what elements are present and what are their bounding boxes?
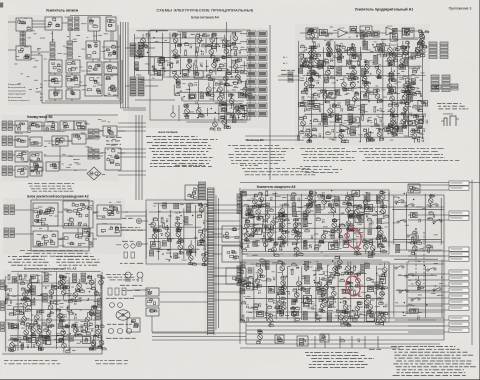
- wire: [31, 54, 42, 56]
- switch contact: [429, 204, 438, 208]
- IC U48: [418, 116, 423, 123]
- IC U53: [432, 85, 441, 89]
- text line: [175, 164, 205, 166]
- transistor VT148: [354, 242, 361, 256]
- resistor R141: [427, 247, 430, 253]
- resistor R124: [353, 265, 356, 271]
- transistor VT66: [307, 72, 315, 87]
- wire: [70, 15, 112, 17]
- connector X19: [323, 116, 328, 124]
- connector pair: [247, 71, 267, 77]
- transistor VT150: [380, 190, 385, 204]
- IC U13: [66, 75, 80, 87]
- transistor VT51: [387, 79, 395, 93]
- resistor R77: [13, 345, 16, 351]
- connector X24: [350, 127, 355, 135]
- IC U40: [348, 47, 356, 55]
- connector X10: [238, 93, 243, 98]
- transistor VT88: [34, 310, 44, 325]
- resistor R84: [197, 214, 201, 217]
- transistor VT102: [97, 336, 106, 350]
- wire: [13, 139, 15, 141]
- svg-text:Усилитель мощности: Усилитель мощности: [8, 100, 30, 102]
- capacitor C104: [346, 281, 349, 285]
- wire: [161, 33, 163, 80]
- svg-text:Блок питания А4: Блок питания А4: [191, 16, 219, 20]
- connector X18: [324, 77, 329, 82]
- resistor R116: [291, 269, 294, 275]
- transistor VT142: [331, 218, 337, 232]
- capacitor C52: [9, 288, 12, 292]
- IC U56: [15, 136, 28, 147]
- resistor R137: [411, 236, 414, 242]
- connector X105: [334, 241, 338, 246]
- capacitor C101: [319, 316, 322, 320]
- connector X14: [138, 43, 144, 56]
- capacitor C37: [354, 130, 357, 134]
- capacitor C116: [353, 312, 356, 316]
- text line: [95, 360, 128, 362]
- wire: [121, 229, 128, 231]
- connector X52: [8, 136, 13, 145]
- wire: [213, 81, 215, 101]
- text line: [31, 188, 72, 190]
- capacitor C93: [258, 290, 261, 294]
- capacitor C39: [384, 51, 387, 55]
- transistor VT69: [337, 46, 346, 60]
- capacitor C34: [417, 66, 420, 70]
- resistor R83: [162, 222, 165, 228]
- wire: [71, 99, 73, 101]
- wire: [15, 233, 33, 235]
- wire: [31, 276, 33, 348]
- resistor R38: [361, 115, 364, 121]
- text line: [56, 261, 99, 263]
- IC U117: [242, 206, 253, 218]
- IC U15: [104, 75, 118, 96]
- connector X58: [94, 129, 99, 139]
- text line: [397, 372, 466, 374]
- transistor VT140: [319, 230, 327, 244]
- wire: [96, 31, 98, 41]
- resistor R122: [329, 304, 333, 307]
- wire: [52, 31, 54, 42]
- capacitor C9: [181, 97, 184, 101]
- transistor VT141: [328, 203, 338, 217]
- transistor VT2: [173, 45, 180, 59]
- transistor VT131: [272, 241, 279, 256]
- connector X5: [67, 41, 73, 58]
- input jack: [136, 241, 141, 246]
- transistor VT18: [228, 93, 234, 108]
- capacitor C11: [195, 101, 198, 105]
- IC U119: [411, 213, 418, 218]
- IC U1: [16, 18, 32, 31]
- IC U12: [49, 75, 62, 87]
- wire: [179, 33, 181, 54]
- transistor VT72: [366, 128, 374, 142]
- capacitor C28: [364, 59, 367, 63]
- capacitor C99: [296, 265, 299, 269]
- transistor VT190: [336, 309, 348, 324]
- capacitor C53: [10, 300, 13, 304]
- wire: [205, 60, 207, 72]
- resistor R103: [360, 212, 364, 215]
- text line: [369, 348, 381, 350]
- wire: [306, 87, 419, 89]
- text line: [13, 258, 46, 260]
- value labels: [243, 262, 387, 318]
- transistor VT1: [172, 33, 182, 48]
- IC U102: [365, 204, 373, 211]
- transistor VT38: [350, 43, 358, 57]
- channel frame upper: [242, 190, 389, 254]
- transistor VT81: [307, 28, 314, 43]
- wire: [246, 317, 444, 319]
- IC U71: [33, 203, 58, 226]
- wire: [151, 316, 153, 332]
- transistor VT167: [278, 260, 285, 275]
- transistor VT183: [378, 286, 388, 301]
- capacitor C98: [287, 291, 290, 295]
- resistor R102: [304, 240, 307, 246]
- transistor VT164: [256, 263, 266, 278]
- transistor VT154: [263, 208, 273, 223]
- text line: [106, 297, 134, 299]
- capacitor C117: [381, 285, 384, 289]
- IC U29: [298, 102, 306, 106]
- wire: [13, 154, 15, 156]
- capacitor C4: [167, 62, 170, 66]
- connector X53: [2, 151, 7, 160]
- text line: [152, 145, 210, 147]
- wire: [334, 41, 336, 138]
- wire: [408, 319, 449, 321]
- connector X87: [186, 204, 191, 212]
- svg-text:Усилитель записи: Усилитель записи: [46, 9, 78, 13]
- IC U55: [30, 122, 42, 131]
- transistor VT101: [94, 324, 104, 338]
- resistor R92: [315, 244, 319, 247]
- transistor VT87: [23, 325, 31, 339]
- resistor R19: [300, 130, 304, 133]
- transistor VT105: [58, 275, 66, 290]
- wire: [86, 138, 88, 140]
- transistor VT176: [344, 261, 354, 275]
- output jack Гн8: [449, 270, 469, 274]
- connector X113: [292, 299, 296, 304]
- IC U39: [336, 115, 342, 122]
- connector X95: [316, 204, 321, 212]
- text line: [396, 360, 471, 362]
- transistor VT121: [198, 203, 207, 217]
- wire: [216, 37, 218, 52]
- connector X84: [162, 241, 166, 246]
- wire: [275, 264, 277, 320]
- output jack Гн1: [449, 181, 469, 185]
- wire: [315, 268, 317, 320]
- transistor VT71: [362, 71, 368, 85]
- wire: [242, 259, 382, 261]
- text line: [364, 154, 443, 156]
- transistor VT61: [415, 42, 425, 57]
- wire: [240, 65, 247, 67]
- transistor VT181: [367, 300, 374, 314]
- wire: [127, 22, 129, 108]
- transistor VT47: [377, 127, 384, 141]
- panel shading: [238, 260, 390, 323]
- red annotation ellipse: [344, 275, 361, 297]
- connector X35: [346, 100, 350, 105]
- resistor R70: [69, 311, 73, 314]
- transistor VT177: [343, 300, 349, 314]
- switch contact: [427, 268, 436, 272]
- resistor R15: [189, 83, 193, 86]
- wire: [240, 57, 247, 59]
- wire: [408, 291, 449, 293]
- IC U5: [16, 46, 31, 60]
- connector pair: [247, 47, 267, 53]
- transistor VT198: [335, 255, 342, 269]
- wire: [136, 56, 163, 58]
- wire: [408, 303, 449, 305]
- junctions: [181, 83, 233, 98]
- wire: [246, 263, 444, 265]
- wire: [244, 108, 246, 119]
- transistor VT138: [308, 190, 316, 205]
- wire: [226, 22, 228, 128]
- resistor R29: [312, 134, 316, 137]
- wire: [110, 31, 112, 41]
- capacitor C89: [366, 214, 369, 218]
- capacitor C33: [390, 132, 393, 136]
- transistor VT29: [300, 53, 311, 67]
- resistor R99: [378, 243, 382, 246]
- IC U121: [408, 184, 420, 193]
- IC U6: [86, 41, 100, 59]
- wire: [394, 319, 436, 321]
- transistor VT83: [8, 337, 17, 352]
- pinout symbol: [137, 272, 143, 282]
- wire: [60, 169, 87, 171]
- wire: [32, 23, 45, 25]
- transistor VT62: [413, 114, 422, 129]
- IC U45: [388, 61, 395, 66]
- wire: [408, 219, 449, 221]
- wire: [118, 130, 146, 132]
- connector X97: [366, 193, 370, 201]
- resistor R10: [206, 74, 210, 77]
- resistor R74: [95, 290, 98, 296]
- connector X1: [68, 17, 73, 31]
- connector X50: [8, 121, 13, 130]
- transistor VT46: [373, 89, 383, 104]
- resistor R125: [353, 290, 356, 296]
- wire: [169, 33, 171, 78]
- wire: [206, 220, 240, 222]
- transistor VT182: [381, 263, 387, 277]
- junctions: [403, 266, 442, 313]
- wire: [215, 61, 217, 75]
- output jack Гн15: [449, 316, 469, 320]
- capacitor C100: [311, 306, 314, 310]
- wire: [245, 135, 300, 137]
- wire: [408, 184, 449, 186]
- wire: [160, 57, 243, 59]
- wire: [118, 126, 146, 128]
- resistor R8: [195, 60, 198, 66]
- IC U124: [320, 334, 329, 342]
- text line: [394, 357, 461, 359]
- switch contact: [395, 266, 404, 270]
- capacitor C67: [45, 324, 48, 328]
- resistor R17: [301, 90, 305, 93]
- resistor R48: [363, 34, 367, 37]
- wire: [44, 155, 103, 157]
- connector X117: [303, 312, 307, 320]
- transistor VT128: [256, 204, 263, 219]
- IC U116: [375, 282, 382, 289]
- text line: [150, 163, 209, 165]
- connector X20: [338, 54, 342, 62]
- text line: [106, 337, 136, 339]
- IC U16: [49, 90, 62, 99]
- transistor VT189: [321, 293, 331, 308]
- wire: [242, 233, 248, 235]
- resistor R2: [184, 50, 187, 56]
- wire: [269, 25, 271, 180]
- connector X77: [58, 323, 63, 328]
- resistor R9: [195, 66, 198, 72]
- wire: [395, 305, 443, 307]
- text line: [4, 363, 60, 365]
- transistor VT129: [270, 216, 280, 230]
- transistor VT5: [207, 44, 216, 59]
- block frame A2: [31, 200, 89, 251]
- text line: [438, 105, 465, 107]
- IC U21: [189, 94, 196, 99]
- resistor R27: [314, 119, 318, 122]
- IC U122: [297, 336, 308, 346]
- transistor VT22: [210, 117, 221, 131]
- resistor R115: [292, 263, 296, 266]
- IC U92: [146, 298, 159, 306]
- wire: [243, 61, 245, 73]
- svg-text:Селектор В1: Селектор В1: [246, 138, 264, 142]
- connector X64: [10, 228, 15, 237]
- text line: [305, 151, 357, 153]
- capacitor C56: [27, 345, 30, 349]
- transistor VT40: [348, 77, 356, 92]
- panel shading: [295, 24, 430, 146]
- text line: [120, 262, 143, 264]
- capacitor C91: [246, 305, 249, 309]
- output jack Гн6: [449, 252, 469, 256]
- wire: [223, 83, 225, 100]
- IC U73: [97, 205, 121, 219]
- transistor VT192: [364, 294, 370, 309]
- wire: [162, 76, 240, 78]
- wire: [159, 70, 247, 72]
- wire: [149, 211, 204, 213]
- wire: [133, 34, 135, 77]
- IC U70: [105, 148, 121, 170]
- connector X11: [232, 117, 236, 122]
- resistor R3: [196, 47, 199, 53]
- wire: [213, 299, 240, 301]
- IC U67: [60, 121, 74, 130]
- IC U57: [30, 137, 42, 146]
- text line: [362, 160, 459, 162]
- text line: [30, 185, 72, 187]
- resistor R110: [254, 303, 258, 306]
- text line: [96, 363, 128, 365]
- resistor R20: [297, 135, 300, 141]
- resistor R30: [324, 59, 328, 62]
- transistor VT166: [265, 313, 273, 328]
- transistor VT178: [341, 312, 351, 326]
- resistor R100: [278, 237, 282, 240]
- connector X61: [4, 205, 9, 214]
- panel shading: [3, 198, 125, 254]
- wire: [213, 275, 240, 277]
- text line: [394, 351, 467, 353]
- transistor VT21: [196, 104, 204, 118]
- connector X115: [305, 276, 310, 284]
- connector X33: [322, 114, 327, 122]
- wire: [207, 108, 209, 116]
- resistor R22: [314, 72, 318, 75]
- svg-text:Блок усилителей: Блок усилителей: [8, 86, 26, 89]
- IC U31: [327, 91, 337, 99]
- resistor R18: [302, 96, 305, 102]
- wire: [145, 47, 155, 49]
- wire: [471, 180, 473, 345]
- wire: [246, 329, 444, 331]
- transistor VT110: [88, 275, 96, 289]
- transistor VT159: [337, 223, 345, 237]
- IC U84: [27, 338, 36, 343]
- capacitor C111: [385, 304, 388, 308]
- transistor VT34: [326, 65, 335, 79]
- IC U25: [306, 28, 318, 38]
- wire: [45, 100, 120, 102]
- wire: [246, 206, 444, 208]
- transistor VT130: [265, 227, 273, 241]
- wire: [68, 277, 70, 351]
- transistor VT184: [380, 312, 388, 326]
- IC U74: [33, 231, 58, 247]
- resistor R6: [234, 50, 237, 56]
- text line: [122, 217, 135, 219]
- resistor R134: [347, 311, 350, 317]
- text line: [120, 227, 140, 229]
- IC U120: [410, 309, 419, 313]
- connector X99: [377, 218, 382, 223]
- transistor VT143: [343, 192, 352, 206]
- capacitor C24: [331, 129, 334, 133]
- text line: [244, 171, 314, 173]
- transistor VT96: [61, 285, 69, 300]
- IC U10: [87, 62, 102, 74]
- wire: [141, 79, 163, 81]
- output jack Гн11: [449, 288, 469, 292]
- IC U99: [343, 240, 349, 247]
- connector X70: [69, 336, 74, 341]
- wire: [287, 194, 289, 246]
- resistor R67: [59, 313, 63, 316]
- wire: [153, 202, 202, 204]
